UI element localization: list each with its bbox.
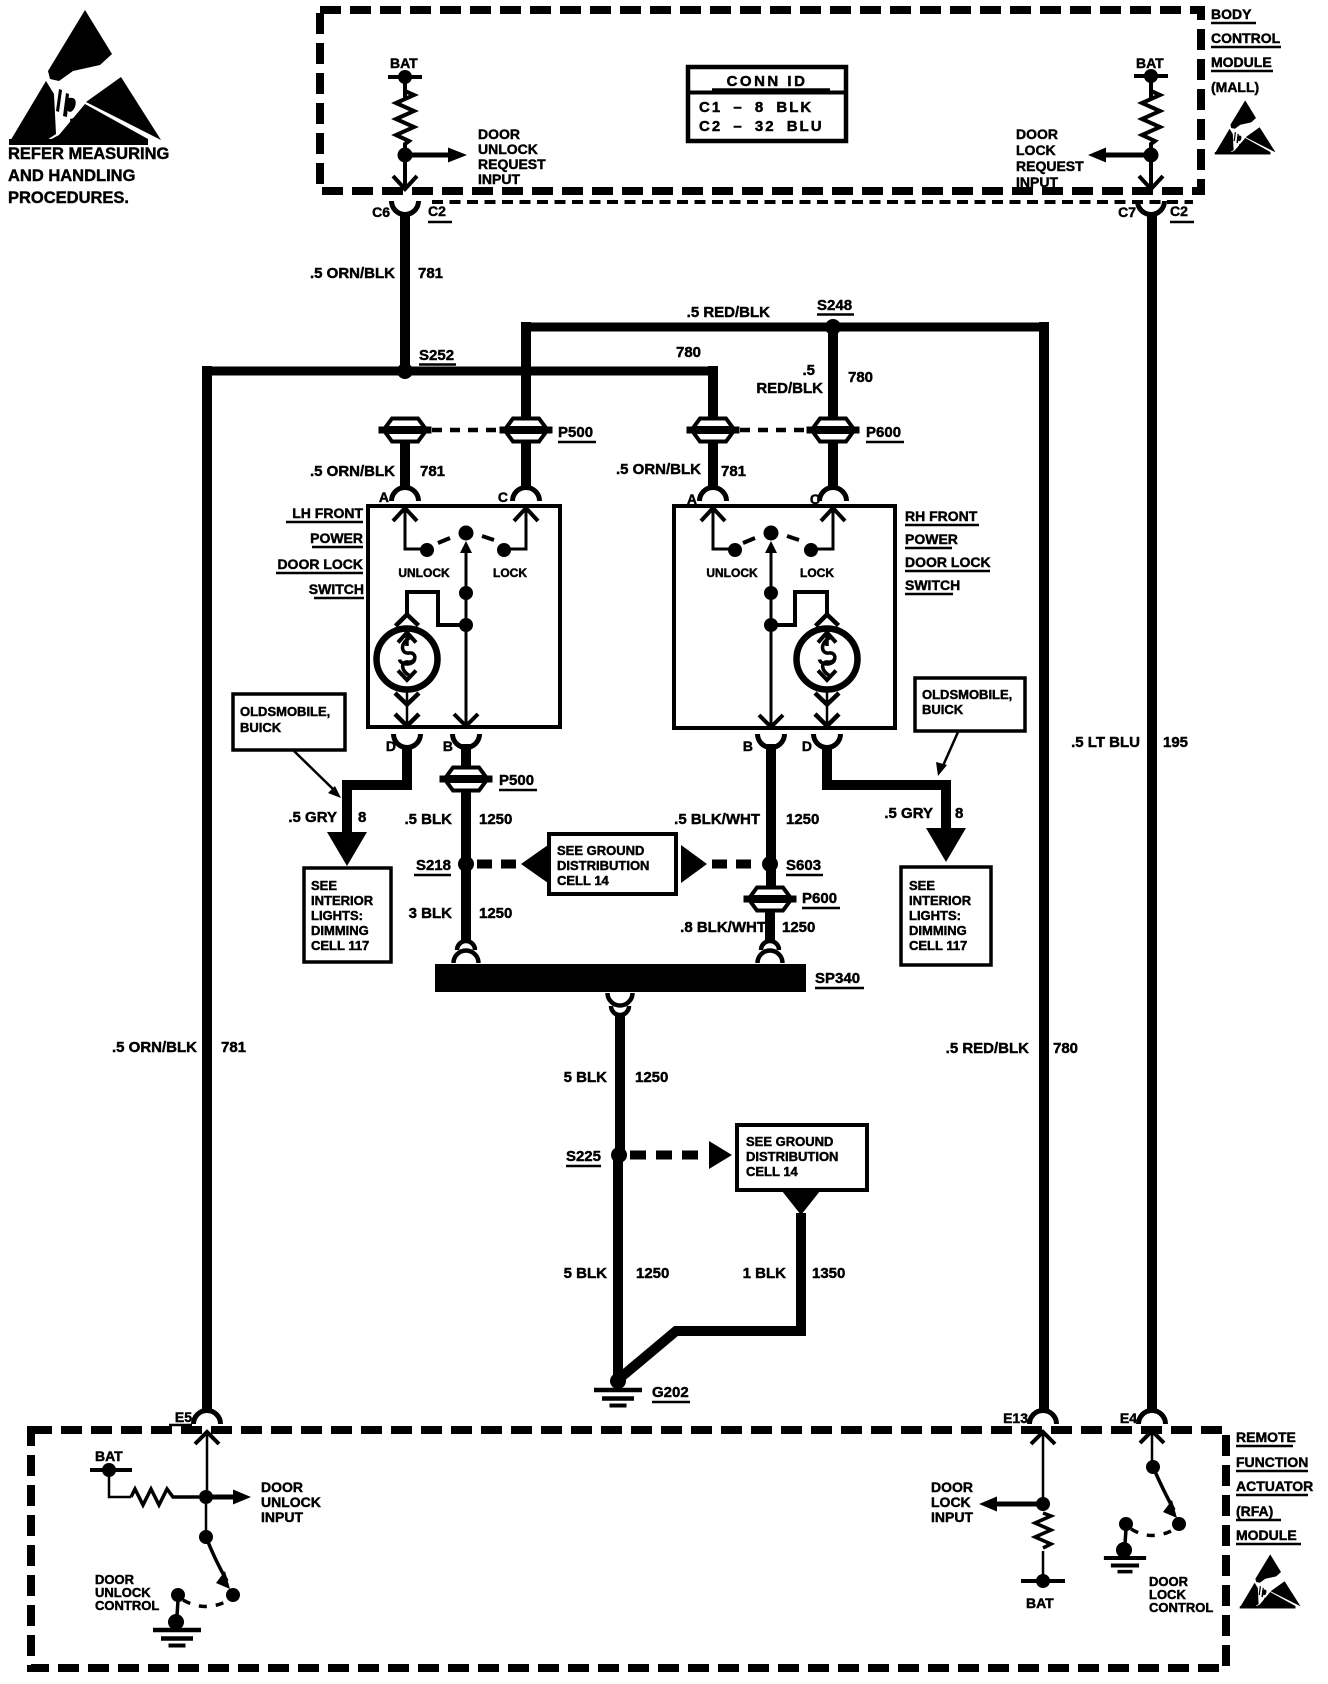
svg-text:P600: P600 <box>802 890 837 907</box>
svg-text:(RFA): (RFA) <box>1236 1503 1273 1519</box>
svg-text:.5: .5 <box>802 362 815 379</box>
door lock control switch <box>1140 1431 1164 1443</box>
door unlock control switch <box>205 1504 208 1531</box>
pole exit arrow <box>759 715 783 727</box>
RFA E5 input arrow <box>195 1432 219 1497</box>
arrow out of callout (down) <box>782 1191 820 1215</box>
wire S252 horizontal <box>202 367 716 376</box>
svg-text:P500: P500 <box>558 424 593 441</box>
ESD symbol (RFA) <box>1240 1554 1301 1608</box>
svg-text:CONTROL: CONTROL <box>1211 30 1281 46</box>
SEE GROUND DISTRIBUTION CELL 14 box (middle) <box>549 834 676 894</box>
svg-text:C: C <box>498 489 508 505</box>
wire: lamp feed jog <box>407 592 466 625</box>
svg-text:C2: C2 <box>1170 203 1188 219</box>
svg-text:1250: 1250 <box>479 905 512 922</box>
switch body outline <box>674 506 895 728</box>
svg-text:A: A <box>379 489 389 505</box>
splice S248 <box>825 319 841 335</box>
connector P600 (pair) <box>687 419 740 442</box>
svg-text:LOCK: LOCK <box>800 566 834 580</box>
svg-text:PROCEDURES.: PROCEDURES. <box>8 189 129 207</box>
SEE INTERIOR LIGHTS box (right) <box>901 867 991 965</box>
connector C7 <box>1118 201 1194 222</box>
arrow (right) of ground distribution callout <box>681 845 707 883</box>
svg-text:CELL 14: CELL 14 <box>557 873 610 888</box>
svg-text:DOOR: DOOR <box>261 1479 303 1495</box>
label DOOR UNLOCK CONTROL <box>95 1572 159 1613</box>
svg-text:INPUT: INPUT <box>1016 174 1058 190</box>
svg-text:INPUT: INPUT <box>478 171 520 187</box>
OLDSMOBILE, BUICK callout (right) <box>915 678 1025 776</box>
svg-text:1250: 1250 <box>479 811 512 828</box>
label DOOR LOCK CONTROL <box>1149 1574 1213 1615</box>
svg-text:S248: S248 <box>817 297 852 314</box>
grommet arcs above SP340 (left) <box>454 941 479 963</box>
svg-text:780: 780 <box>676 344 701 361</box>
splice pack SP340 <box>435 964 806 992</box>
connector C6 <box>372 201 452 222</box>
arrow to DOOR UNLOCK INPUT <box>206 1495 233 1500</box>
svg-text:DISTRIBUTION: DISTRIBUTION <box>557 858 649 873</box>
pin entry arrow at x=526 <box>514 508 538 549</box>
wire C7 down to E4 <box>1147 212 1157 1410</box>
svg-text:AND HANDLING: AND HANDLING <box>8 167 135 185</box>
svg-text:SWITCH: SWITCH <box>905 577 960 593</box>
svg-text:LOCK: LOCK <box>1016 142 1056 158</box>
svg-text:780: 780 <box>1053 1040 1078 1057</box>
label DOOR LOCK REQUEST INPUT <box>1016 126 1084 190</box>
svg-text:781: 781 <box>418 265 443 282</box>
connector C2 thin dashed line <box>432 200 1193 204</box>
lock contact <box>804 543 818 557</box>
svg-text:G202: G202 <box>652 1384 689 1401</box>
connector P500 (lower) <box>440 768 493 791</box>
illumination lamp <box>797 615 858 727</box>
wire SP340 to S225 <box>615 1016 625 1156</box>
splice S225 <box>611 1147 627 1163</box>
SEE INTERIOR LIGHTS box (left) <box>304 868 391 962</box>
svg-text:REMOTE: REMOTE <box>1236 1429 1296 1445</box>
wire to lock contact <box>504 548 526 549</box>
dashed lead to S603 <box>712 860 757 869</box>
svg-text:.5 RED/BLK: .5 RED/BLK <box>946 1040 1030 1057</box>
svg-text:REQUEST: REQUEST <box>1016 158 1084 174</box>
CONN ID table <box>688 67 846 141</box>
ESD warning text <box>8 145 169 207</box>
svg-text:BUICK: BUICK <box>240 720 282 735</box>
svg-text:P600: P600 <box>866 424 901 441</box>
wire left drop to E5 <box>202 366 212 1410</box>
svg-text:8: 8 <box>358 809 366 826</box>
svg-text:.5 BLK: .5 BLK <box>404 811 452 828</box>
connector P500 (pair) <box>379 419 432 442</box>
svg-text:781: 781 <box>221 1039 246 1056</box>
svg-text:UNLOCK: UNLOCK <box>706 566 758 580</box>
wire C6 down to S252 <box>400 212 410 367</box>
BAT feed (RFA left) <box>90 1448 132 1497</box>
svg-text:.8 BLK/WHT: .8 BLK/WHT <box>680 919 766 936</box>
svg-text:REFER MEASURING: REFER MEASURING <box>8 145 169 163</box>
svg-text:.5 GRY: .5 GRY <box>884 805 933 822</box>
Body Control Module dashed box <box>320 10 1201 191</box>
svg-text:INTERIOR: INTERIOR <box>909 893 972 908</box>
module name: REMOTE FUNCTION ACTUATOR (RFA) MODULE <box>1236 1429 1313 1543</box>
resistor (BCM left) <box>396 91 414 149</box>
wire LH pin D to interior lights arrow <box>347 745 407 833</box>
pole junction node <box>459 586 473 600</box>
wire RH pin D to interior lights arrow <box>827 745 946 829</box>
grommet arcs above SP340 (right) <box>758 941 783 963</box>
svg-text:SEE GROUND: SEE GROUND <box>746 1134 833 1149</box>
svg-text:RH FRONT: RH FRONT <box>905 508 978 524</box>
wire right drop to E13 <box>1039 322 1049 1410</box>
svg-text:B: B <box>743 738 753 754</box>
label DOOR UNLOCK INPUT <box>261 1479 321 1525</box>
svg-text:MODULE: MODULE <box>1236 1527 1297 1543</box>
svg-text:C1 – 8 BLK: C1 – 8 BLK <box>699 99 813 116</box>
pin entry arrow at x=833 <box>821 508 845 549</box>
svg-text:CELL 117: CELL 117 <box>311 938 369 953</box>
svg-text:.5 ORN/BLK: .5 ORN/BLK <box>310 463 395 480</box>
wire P600 to SP340 <box>765 911 775 940</box>
Remote Function Actuator dashed box <box>31 1430 1226 1668</box>
svg-text:1 BLK: 1 BLK <box>743 1265 787 1282</box>
switch pivot <box>764 526 779 541</box>
svg-text:BUICK: BUICK <box>922 702 964 717</box>
svg-text:.5 GRY: .5 GRY <box>288 809 337 826</box>
svg-text:E4: E4 <box>1120 1410 1137 1426</box>
svg-text:DOOR: DOOR <box>1016 126 1058 142</box>
svg-text:SEE: SEE <box>311 878 337 893</box>
wire to unlock contact <box>713 548 735 549</box>
ground G202 <box>610 1373 626 1389</box>
dashed lead S225 to arrow <box>630 1151 703 1160</box>
svg-text:DOOR LOCK: DOOR LOCK <box>905 554 991 570</box>
node: unlock request junction <box>398 148 413 163</box>
svg-text:C7: C7 <box>1118 204 1136 220</box>
wire: lamp feed jog <box>771 592 827 625</box>
pin entry arrow at x=713 <box>701 508 725 549</box>
svg-text:3 BLK: 3 BLK <box>409 905 453 922</box>
svg-text:BAT: BAT <box>390 55 418 71</box>
arrow into ground distribution callout (lower) <box>709 1141 732 1169</box>
resistor (RFA left) <box>131 1489 199 1505</box>
svg-text:CONTROL: CONTROL <box>95 1598 159 1613</box>
svg-text:1350: 1350 <box>812 1265 845 1282</box>
wire LH pin B down <box>461 744 471 768</box>
svg-text:MODULE: MODULE <box>1211 54 1272 70</box>
svg-text:.5 LT BLU: .5 LT BLU <box>1071 734 1140 751</box>
arrow to DOOR LOCK INPUT <box>997 1502 1043 1507</box>
splice S218 <box>458 856 474 872</box>
pole exit arrow <box>454 714 478 726</box>
label: LH FRONT POWER DOOR LOCK SWITCH <box>277 505 364 597</box>
svg-text:.5 ORN/BLK: .5 ORN/BLK <box>112 1039 197 1056</box>
svg-text:LH FRONT: LH FRONT <box>292 505 363 521</box>
wire riser P500 right <box>521 322 531 422</box>
svg-text:LIGHTS:: LIGHTS: <box>909 908 961 923</box>
svg-text:SEE GROUND: SEE GROUND <box>557 843 644 858</box>
wire S225 to G202 <box>613 1160 623 1382</box>
switch pivot <box>459 526 474 541</box>
svg-text:.5 BLK/WHT: .5 BLK/WHT <box>674 811 760 828</box>
node: lock input junction <box>1036 1497 1050 1511</box>
switch body outline <box>368 506 560 727</box>
BAT feed (BCM right) <box>1134 55 1168 99</box>
label DOOR UNLOCK REQUEST INPUT <box>478 126 546 187</box>
svg-text:DIMMING: DIMMING <box>909 923 967 938</box>
svg-text:C6: C6 <box>372 204 390 220</box>
svg-text:781: 781 <box>721 463 746 480</box>
grommet arcs below SP340 <box>608 993 633 1015</box>
svg-text:BAT: BAT <box>1026 1595 1054 1611</box>
svg-text:8: 8 <box>955 805 963 822</box>
dashed lead S218 to arrow <box>477 860 521 869</box>
svg-text:POWER: POWER <box>310 530 363 546</box>
svg-text:UNLOCK: UNLOCK <box>478 141 538 157</box>
arrow (left) of ground distribution callout <box>521 845 548 883</box>
wire S248 horizontal <box>521 323 1049 332</box>
svg-text:S603: S603 <box>786 857 821 874</box>
svg-text:C2: C2 <box>428 203 446 219</box>
pole arrow <box>765 541 777 553</box>
svg-text:CONN ID: CONN ID <box>727 73 808 90</box>
svg-text:SEE: SEE <box>909 878 935 893</box>
svg-text:1250: 1250 <box>782 919 815 936</box>
svg-text:RED/BLK: RED/BLK <box>756 380 823 397</box>
svg-text:195: 195 <box>1163 734 1188 751</box>
arrow down to C6 <box>393 161 417 189</box>
wire to unlock contact <box>405 548 427 549</box>
svg-text:E13: E13 <box>1003 1410 1028 1426</box>
svg-text:CELL 117: CELL 117 <box>909 938 967 953</box>
svg-text:S225: S225 <box>566 1148 601 1165</box>
lock contact <box>497 543 511 557</box>
svg-text:D: D <box>802 738 812 754</box>
svg-text:5 BLK: 5 BLK <box>564 1265 608 1282</box>
wires saucers down to switch pins <box>400 441 410 489</box>
arrow down to C7 <box>1139 161 1163 189</box>
OLDSMOBILE, BUICK callout (left) <box>233 694 345 798</box>
ESD symbol (BCM) <box>1215 100 1276 154</box>
label: RH FRONT POWER DOOR LOCK SWITCH <box>905 508 991 593</box>
svg-text:.5 RED/BLK: .5 RED/BLK <box>687 304 771 321</box>
lamp tap node <box>459 618 473 632</box>
wire: switch pole <box>465 553 468 727</box>
wire S218 to SP340 <box>461 864 471 940</box>
svg-text:FUNCTION: FUNCTION <box>1236 1454 1308 1470</box>
ESD handling warning symbol (top left) <box>9 10 161 145</box>
svg-text:POWER: POWER <box>905 531 958 547</box>
arrow to DOOR LOCK REQUEST INPUT <box>1088 148 1151 163</box>
svg-text:1250: 1250 <box>786 811 819 828</box>
resistor (BCM right) <box>1142 91 1160 149</box>
svg-text:781: 781 <box>420 463 445 480</box>
svg-text:BODY: BODY <box>1211 6 1252 22</box>
svg-text:C2 – 32 BLU: C2 – 32 BLU <box>699 118 824 135</box>
svg-text:S252: S252 <box>419 347 454 364</box>
connector P600 (lower) <box>744 888 797 911</box>
SEE GROUND DISTRIBUTION CELL 14 box (lower) <box>737 1125 867 1190</box>
svg-text:DOOR: DOOR <box>931 1479 973 1495</box>
svg-text:UNLOCK: UNLOCK <box>261 1494 321 1510</box>
svg-text:DIMMING: DIMMING <box>311 923 369 938</box>
module name: BODY CONTROL MODULE (MALL) <box>1211 6 1281 95</box>
svg-text:LIGHTS:: LIGHTS: <box>311 908 363 923</box>
svg-text:5 BLK: 5 BLK <box>564 1069 608 1086</box>
RFA E13 input arrow <box>1031 1432 1055 1498</box>
ground (door lock control) <box>1125 1529 1126 1544</box>
pole junction node <box>764 586 778 600</box>
svg-text:ACTUATOR: ACTUATOR <box>1236 1478 1313 1494</box>
wire RH pin B down to S603 <box>766 744 776 888</box>
wire to lock contact <box>811 548 833 549</box>
pole arrow <box>460 541 472 553</box>
pin entry arrow at x=405 <box>393 508 417 549</box>
svg-text:780: 780 <box>848 369 873 386</box>
svg-text:SWITCH: SWITCH <box>309 581 364 597</box>
illumination lamp <box>377 615 438 727</box>
svg-text:LOCK: LOCK <box>931 1494 971 1510</box>
wire callout to G202 <box>620 1213 801 1378</box>
svg-text:REQUEST: REQUEST <box>478 156 546 172</box>
wire P500 to S218 <box>461 790 471 864</box>
lamp tap node <box>764 618 778 632</box>
svg-text:DOOR LOCK: DOOR LOCK <box>277 556 363 572</box>
svg-text:.5 ORN/BLK: .5 ORN/BLK <box>616 461 701 478</box>
svg-text:1250: 1250 <box>635 1069 668 1086</box>
resistor (RFA right) <box>1035 1513 1051 1548</box>
svg-text:.5 ORN/BLK: .5 ORN/BLK <box>310 265 395 282</box>
BAT (RFA right) <box>1042 1551 1045 1581</box>
wire riser to RH pin A <box>708 366 718 422</box>
svg-text:E5: E5 <box>175 1409 192 1425</box>
svg-text:CELL 14: CELL 14 <box>746 1164 799 1179</box>
node: lock request junction <box>1144 148 1159 163</box>
node: unlock input junction <box>199 1490 213 1504</box>
arrow to DOOR UNLOCK REQUEST INPUT <box>405 148 467 163</box>
svg-text:1250: 1250 <box>636 1265 669 1282</box>
splice S252 <box>397 363 413 379</box>
svg-text:INTERIOR: INTERIOR <box>311 893 374 908</box>
svg-text:LOCK: LOCK <box>493 566 527 580</box>
unlock contact <box>420 543 434 557</box>
svg-text:OLDSMOBILE,: OLDSMOBILE, <box>922 687 1012 702</box>
svg-text:OLDSMOBILE,: OLDSMOBILE, <box>240 704 330 719</box>
wire: switch pole <box>770 553 773 728</box>
svg-text:(MALL): (MALL) <box>1211 79 1259 95</box>
svg-text:P500: P500 <box>499 772 534 789</box>
svg-text:INPUT: INPUT <box>261 1509 303 1525</box>
label DOOR LOCK INPUT <box>931 1479 973 1525</box>
svg-text:INPUT: INPUT <box>931 1509 973 1525</box>
splice S603 <box>762 856 778 872</box>
svg-text:BAT: BAT <box>95 1448 123 1464</box>
svg-text:SP340: SP340 <box>815 970 860 987</box>
ground (door unlock control) <box>177 1600 178 1616</box>
svg-text:DOOR: DOOR <box>478 126 520 142</box>
unlock contact <box>728 543 742 557</box>
svg-text:BAT: BAT <box>1136 55 1164 71</box>
wire S248 down to P600 <box>828 327 838 422</box>
svg-text:DISTRIBUTION: DISTRIBUTION <box>746 1149 838 1164</box>
svg-text:CONTROL: CONTROL <box>1149 1600 1213 1615</box>
BAT feed (BCM left) <box>388 55 422 99</box>
svg-text:S218: S218 <box>416 857 451 874</box>
svg-text:UNLOCK: UNLOCK <box>398 566 450 580</box>
